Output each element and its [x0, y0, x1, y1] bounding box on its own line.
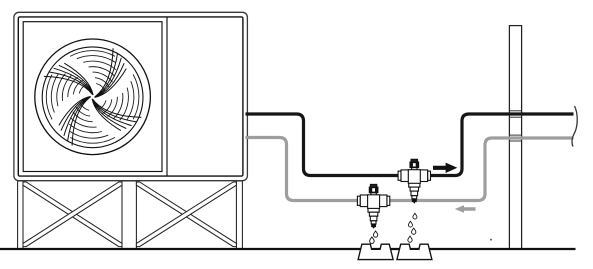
brace bay1 falling: [23, 182, 122, 247]
flow arrow left (gray): [455, 205, 476, 212]
unit panel divider: [166, 17, 168, 176]
fan grille arcs: [46, 51, 139, 144]
wall segment caps at pipe crossings: [509, 111, 521, 141]
stand middle post: [122, 181, 136, 249]
fan panel frame: [23, 22, 162, 172]
stand left post: [18, 181, 23, 249]
fan inner ring: [42, 47, 143, 148]
concrete pad 2: [397, 244, 432, 259]
speck: [490, 239, 492, 241]
droplets under valve V2: [370, 231, 378, 243]
wall post: [509, 26, 521, 249]
valve V1 on black pipe: [398, 159, 430, 203]
brace bay1 rising: [23, 182, 122, 247]
brace bay2 falling: [136, 182, 236, 247]
fan outer ring: [35, 39, 151, 155]
flow arrow right (black): [433, 163, 457, 173]
unit cabinet outer box: [14, 12, 248, 180]
stand right post: [236, 181, 242, 249]
fan blade bundle 3: [92, 99, 141, 131]
droplets under valve V1: [408, 213, 417, 242]
fan blade bundle 4: [95, 48, 127, 97]
black supply pipe: [246, 114, 574, 176]
concrete pad 1: [358, 244, 393, 259]
fan blade bundle 2: [59, 96, 91, 145]
valve V2 on gray pipe: [357, 184, 389, 228]
unit cabinet inner line: [18, 17, 243, 176]
pipe cut end: [572, 106, 577, 147]
ground line: [0, 248, 576, 250]
gray return pipe: [246, 138, 574, 201]
fan blade bundle 1: [44, 63, 93, 95]
brace bay2 rising: [136, 182, 236, 247]
